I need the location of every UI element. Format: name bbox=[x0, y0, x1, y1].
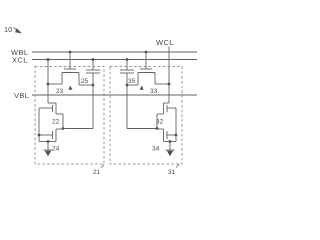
node junction dot at (39,135) bbox=[38, 134, 41, 137]
wire Q32 source down to storage rail bbox=[156, 114, 158, 129]
wire WCL vertical drop to cell 31 bbox=[168, 47, 170, 104]
wire Q23 right leg to capacitor C25 (storage node) bbox=[79, 84, 93, 86]
svg-text:XCL: XCL bbox=[12, 56, 28, 65]
node junction dot at (157,128.5) bbox=[156, 127, 159, 130]
wire gate bus x39 (connects Q22/Q24 gates) bbox=[39, 108, 48, 142]
node junction dot at (127,85) bbox=[126, 84, 129, 87]
svg-text:WCL: WCL bbox=[156, 38, 174, 47]
label 23 with arrowhead pointing at transistor body bbox=[56, 86, 73, 96]
transistor 22 (read transistor) bbox=[39, 103, 63, 114]
label 33 with arrowhead pointing at transistor body bbox=[140, 86, 158, 96]
wire gate stub of Q23 from WBL bbox=[69, 52, 71, 69]
svg-text:10: 10 bbox=[4, 25, 12, 34]
node junction dot at (48,141.5) bbox=[47, 140, 50, 143]
svg-text:23: 23 bbox=[56, 88, 64, 95]
wire storage rail to capacitor branch bbox=[63, 128, 93, 130]
capacitor C25 plates bbox=[86, 70, 100, 73]
wire XCL (horizontal) bbox=[32, 59, 197, 61]
transistor 32 (read transistor, mirrored) bbox=[157, 103, 176, 114]
node junction dot at (48,84) bbox=[47, 83, 50, 86]
wire Q33 left leg to capacitor C35 (storage node) bbox=[127, 84, 138, 86]
transistor 23 (write transistor, gate bar + channel + legs) bbox=[62, 69, 79, 85]
capacitor 35 top lead from XCL bbox=[126, 60, 128, 71]
svg-text:21: 21 bbox=[93, 169, 101, 176]
node junction dot at (63,128.5) bbox=[62, 127, 65, 130]
node junction dot XCL/x48 bbox=[47, 58, 50, 61]
wire storage rail to capacitor branch bbox=[127, 128, 157, 130]
wire gate stub of Q33 from WBL bbox=[145, 52, 147, 69]
wire VBL (horizontal) bbox=[32, 94, 197, 96]
node junction dot at (169,84) bbox=[168, 83, 171, 86]
transistor 33 (write transistor) bbox=[138, 69, 155, 85]
ground (cell 21) bbox=[44, 142, 53, 157]
svg-text:35: 35 bbox=[128, 78, 136, 85]
svg-text:24: 24 bbox=[52, 146, 60, 153]
wire Q22 source down to storage rail bbox=[62, 114, 64, 129]
node junction dot XCL/C25 bbox=[92, 58, 95, 61]
memory cell 21 dashed box bbox=[35, 67, 104, 165]
node junction dot WBL/Q23 gate bbox=[69, 51, 72, 54]
wire Q23 left leg to x48 bbox=[48, 83, 62, 85]
wire WBL (write bit line, horizontal) bbox=[32, 51, 197, 53]
svg-text:25: 25 bbox=[81, 78, 89, 85]
node junction dot at (176,135) bbox=[175, 134, 178, 137]
wire XCL tap vertical x48 down to Q22 drain bbox=[47, 60, 49, 104]
node junction dot XCL/C35 bbox=[126, 58, 129, 61]
wire Q33 right leg to WCL vertical bbox=[155, 83, 169, 85]
node junction dot WBL/Q33 gate bbox=[145, 51, 148, 54]
svg-text:33: 33 bbox=[150, 88, 158, 95]
svg-text:22: 22 bbox=[52, 119, 60, 126]
wire capacitor C35 bottom lead down to storage rail bbox=[126, 73, 128, 129]
transistor 34 (select transistor, mirrored) bbox=[157, 129, 176, 142]
svg-text:31: 31 bbox=[168, 169, 176, 176]
capacitor 25 top lead from XCL bbox=[92, 60, 94, 71]
ground (cell 31) bbox=[166, 142, 175, 157]
node junction dot at (93,85) bbox=[92, 84, 95, 87]
node junction dot at (170,141.5) bbox=[169, 140, 172, 143]
capacitor C35 plates bbox=[120, 70, 134, 73]
transistor 24 (select transistor) bbox=[39, 129, 63, 142]
label 10 with leader arrow bbox=[4, 25, 22, 34]
memory cell 31 dashed box bbox=[110, 67, 182, 165]
svg-text:34: 34 bbox=[152, 146, 160, 153]
wire capacitor C25 bottom lead down to storage rail bbox=[92, 73, 94, 129]
svg-text:VBL: VBL bbox=[14, 91, 29, 100]
wire gate bus x176 (connects Q32/Q34 gates) bbox=[170, 108, 176, 142]
